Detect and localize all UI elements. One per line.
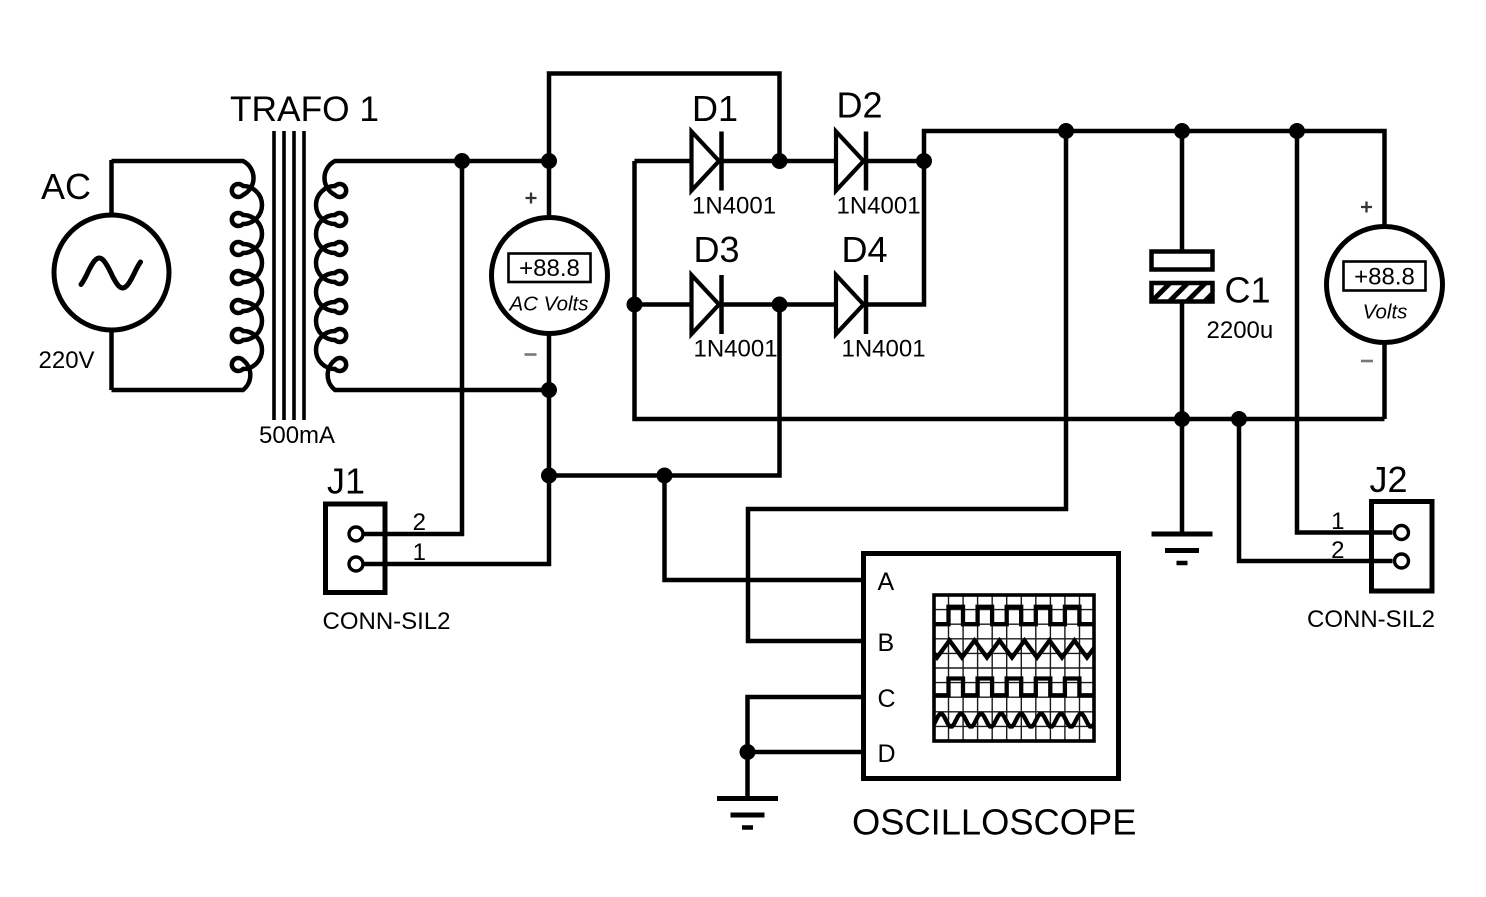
svg-text:1N4001: 1N4001 [842,336,926,363]
junction: - rail / J2 pin2 tap [1231,411,1247,427]
wire J1 pin2 to AC1 node [365,161,463,534]
junction: secondary top / meter1 + [541,153,557,169]
svg-text:TRAFO 1: TRAFO 1 [230,90,379,129]
svg-text:2: 2 [1331,537,1344,564]
voltmeter2 plus [1361,202,1372,213]
wire D2 anode [780,159,837,164]
wire scope input A from AC2 [665,476,867,581]
svg-text:2200u: 2200u [1207,317,1274,344]
svg-text:1N4001: 1N4001 [692,193,776,220]
svg-text:D3: D3 [694,229,740,270]
capacitor C1 top lead [1180,131,1185,252]
svg-text:+88.8: +88.8 [519,255,580,282]
junction: + rail / J2 pin1 tap [1289,123,1305,139]
junction: scope A tap [657,468,673,484]
junction: + rail / C1 top [1174,123,1190,139]
bridge right rail [868,161,924,305]
wire meter2 bottom [1382,343,1387,420]
junction: D2 cathode / + rail stub [916,153,932,169]
connector J2 body [1372,502,1433,592]
voltmeter minus [525,353,537,356]
voltmeter AC Volts body [492,218,608,334]
svg-text:500mA: 500mA [259,422,335,449]
svg-text:1N4001: 1N4001 [694,336,778,363]
voltmeter2 display box [1344,262,1426,291]
AC source V1 [54,215,169,330]
wire meter1 bottom to J1 pin1 [365,334,550,565]
wire J2 pin2 to bottom rail [1239,419,1393,561]
bridge left rail and bottom output rail [635,161,1385,419]
svg-text:D1: D1 [692,88,738,129]
voltmeter display box [509,254,591,283]
wire top loop AC1 to D1/D2 junction [549,74,780,218]
wire J2 pin1 to top rail [1297,131,1393,533]
wire D1 cathode to node [724,159,780,164]
J1 pin 1 circle [349,557,363,571]
voltmeter Volts body [1327,227,1443,343]
positive output top rail [924,131,1385,227]
junction: secondary bottom / meter1 - [541,382,557,398]
svg-text:B: B [878,629,895,657]
junction: + rail / scope B tap [1058,123,1074,139]
svg-text:J1: J1 [327,461,365,502]
wire AC top [109,160,114,216]
svg-text:1N4001: 1N4001 [837,193,921,220]
svg-text:220V: 220V [39,347,95,374]
scope trace channel C square [934,679,1094,696]
transformer core [274,131,304,420]
svg-text:D2: D2 [837,85,883,126]
scope trace channel A square [934,607,1094,624]
wire D1 anode [635,159,692,164]
junction: - rail / C1 bottom / ground [1174,411,1190,427]
wire D3 cathode to node [724,302,780,307]
oscilloscope body [864,554,1119,779]
svg-text:A: A [878,568,895,596]
svg-text:D: D [878,740,896,768]
diode D2 cathode bar [864,132,869,191]
wire scope input D [748,750,867,755]
junction: D1/D3 anodes left rail [627,297,643,313]
capacitor C1 bottom plate (hatched) [1152,283,1213,302]
ground under C1 stem [1180,419,1185,532]
svg-text:AC: AC [41,166,91,207]
svg-text:2: 2 [413,509,426,536]
svg-text:CONN-SIL2: CONN-SIL2 [323,608,451,635]
diode D1 cathode bar [719,132,724,191]
ground stem at scope [745,752,750,799]
svg-text:D4: D4 [842,229,888,270]
diode D2 body [836,132,864,191]
J2 pin 1 circle [1395,526,1409,540]
wire AC bottom [109,330,114,391]
diode D3 body [692,275,720,334]
svg-text:OSCILLOSCOPE: OSCILLOSCOPE [852,802,1136,843]
capacitor C1 top plate [1152,252,1213,270]
connector J1 body [326,504,386,593]
diode D3 cathode bar [719,275,724,334]
diode D1 body [692,132,720,191]
transformer TRAFO1 primary coil [112,161,263,390]
svg-text:C1: C1 [1225,270,1271,311]
AC source sine glyph [81,258,141,288]
J2 pin 2 circle [1395,554,1409,568]
ground symbol at scope [717,796,778,801]
wire scope input C [748,697,867,752]
scope trace channel D sine [934,714,1094,727]
wire D3 anode [635,302,692,307]
svg-text:1: 1 [413,539,426,566]
junction: scope C-D / ground [740,744,756,760]
wire D2 cathode to right rail [868,159,924,164]
svg-text:+88.8: +88.8 [1354,264,1415,291]
scope screen frame [934,595,1094,741]
junction: meter1 - / AC2 wire / J1 pin1 [541,468,557,484]
svg-text:1: 1 [1331,508,1344,535]
wire D4 anode [780,302,837,307]
transformer TRAFO1 secondary coil [316,161,549,390]
voltmeter plus [526,193,537,204]
svg-text:J2: J2 [1370,459,1408,500]
diode D4 cathode bar [864,275,869,334]
scope screen grid [934,595,1094,741]
J1 pin 2 circle [349,527,363,541]
junction: D1 cathode / D2 anode / AC1 [772,153,788,169]
svg-text:CONN-SIL2: CONN-SIL2 [1307,606,1435,633]
svg-text:C: C [878,685,896,713]
capacitor C1 bottom lead [1180,302,1185,420]
svg-text:Volts: Volts [1363,301,1408,324]
diode D4 body [836,275,864,334]
wire AC2 node down and left to meter1 bottom [549,305,780,476]
scope trace channel B triangle [934,641,1094,658]
wire scope input B from positive rail [748,131,1066,641]
voltmeter2 minus [1361,360,1373,363]
ground symbol under C1 [1152,532,1213,537]
svg-text:AC Volts: AC Volts [508,293,589,316]
junction: D3 cathode / D4 anode / AC2 [772,297,788,313]
junction: secondary top / J1 pin2 tap [454,153,470,169]
